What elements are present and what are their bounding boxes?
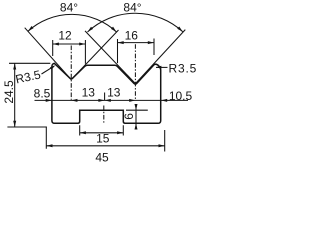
dim 16 arrows	[118, 41, 124, 44]
left groove left flank extension leg	[25, 28, 71, 80]
dim 24.5 extension and dim lines	[7, 63, 50, 127]
svg-text:84°: 84°	[60, 0, 78, 14]
svg-text:16: 16	[125, 29, 139, 43]
right groove left flank extension leg	[85, 31, 135, 84]
svg-text:84°: 84°	[123, 0, 141, 14]
arc arrowheads	[28, 26, 34, 31]
svg-text:45: 45	[95, 151, 109, 165]
right groove centerline	[134, 44, 136, 100]
dim 15 arrows	[80, 131, 86, 134]
dim 12 arrows	[53, 43, 59, 46]
svg-text:8.5: 8.5	[34, 87, 51, 101]
right groove right flank extension leg	[135, 30, 185, 84]
svg-text:12: 12	[58, 28, 72, 42]
dim 16 lines	[118, 39, 155, 64]
left groove centerline	[70, 46, 72, 100]
right 84 degree angle arc	[88, 13, 183, 32]
svg-text:24.5: 24.5	[2, 80, 16, 104]
left R3.5 leader	[42, 66, 55, 74]
left 84 degree angle arc	[28, 14, 117, 32]
svg-text:13: 13	[82, 85, 96, 99]
svg-text:6: 6	[122, 113, 136, 120]
left groove right flank extension leg	[71, 30, 118, 80]
svg-text:15: 15	[96, 132, 110, 146]
dim row arrows	[46, 99, 52, 102]
dim 24.5 arrows	[13, 63, 16, 69]
svg-text:13: 13	[107, 85, 121, 99]
dim 12 lines	[53, 40, 86, 64]
dim 6 arrows	[135, 104, 138, 110]
dim 45 arrows	[46, 144, 52, 147]
part outline: double V-groove block cross-section	[52, 63, 161, 123]
R3.5 leader arrowheads	[50, 65, 55, 69]
svg-text:10.5: 10.5	[169, 89, 193, 103]
notch centerline	[103, 106, 105, 124]
dim row line y=100.4	[35, 93, 189, 101]
right R3.5 leader	[156, 66, 168, 68]
dim 15 lines	[80, 125, 124, 135]
dim 45 extension and dim lines	[46, 127, 164, 152]
svg-text:R3.5: R3.5	[169, 61, 198, 75]
dim 6 lines	[126, 105, 148, 129]
